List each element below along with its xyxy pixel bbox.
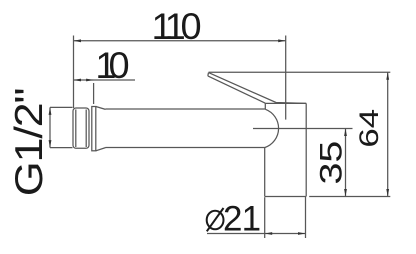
flange washer <box>92 107 96 151</box>
svg-text:64: 64 <box>354 109 384 148</box>
dim 10 dimension line <box>74 79 136 81</box>
arrow G12 up <box>49 107 52 115</box>
arrow dim10 right <box>86 79 94 82</box>
thread nipple body <box>73 108 89 148</box>
arrow phi21 right <box>298 232 306 235</box>
spout top line <box>106 108 266 110</box>
cone taper bottom <box>96 148 106 151</box>
body right edge <box>305 103 307 196</box>
neck vertical <box>264 103 266 109</box>
dim G1/2 dimension line <box>49 107 51 147</box>
body bottom edge with extension <box>265 196 306 198</box>
dim 64 dimension line <box>387 72 389 196</box>
dim G1/2 extension stub top <box>50 106 73 108</box>
dim phi21 extension line right <box>305 197 307 239</box>
dim 64 extension line top <box>209 71 391 73</box>
thread relief line right <box>85 110 87 148</box>
body left edge <box>264 148 266 197</box>
dim 10 extension line right <box>93 83 95 104</box>
arrow dim110 left <box>74 39 82 42</box>
spout bottom line <box>106 147 265 149</box>
dim G1/2 extension stub bottom <box>50 147 73 149</box>
label phi symbol <box>207 208 224 231</box>
spout end cap arc <box>265 109 279 147</box>
dim phi21 dimension line <box>207 233 306 235</box>
arrow dim110 right <box>278 39 286 42</box>
lever bottom edge <box>208 76 265 103</box>
svg-text:35: 35 <box>313 141 348 185</box>
svg-text:110: 110 <box>152 6 201 47</box>
body top edge <box>265 102 306 104</box>
arrow dim35 down <box>344 189 347 197</box>
centerline <box>253 128 353 130</box>
dim 35 dimension line <box>345 129 347 197</box>
arrow dim35 up <box>344 129 347 137</box>
arrow dim10 left <box>74 79 82 82</box>
arrow G12 down <box>49 140 52 148</box>
dim 110 dimension line <box>74 40 286 42</box>
svg-text:G1/2": G1/2" <box>7 89 51 197</box>
arrow phi21 left <box>265 232 273 235</box>
svg-text:21: 21 <box>223 200 261 239</box>
dim 110 extension line left <box>73 36 75 109</box>
cone taper top <box>96 107 106 110</box>
arrow dim64 down <box>386 189 389 197</box>
lever tip cap <box>207 73 210 76</box>
thread relief line left <box>75 110 77 148</box>
dim 110 extension line right <box>285 36 287 120</box>
dim phi21 extension line left <box>264 197 266 238</box>
arrow dim64 up <box>386 72 389 80</box>
lever top edge <box>209 73 307 104</box>
